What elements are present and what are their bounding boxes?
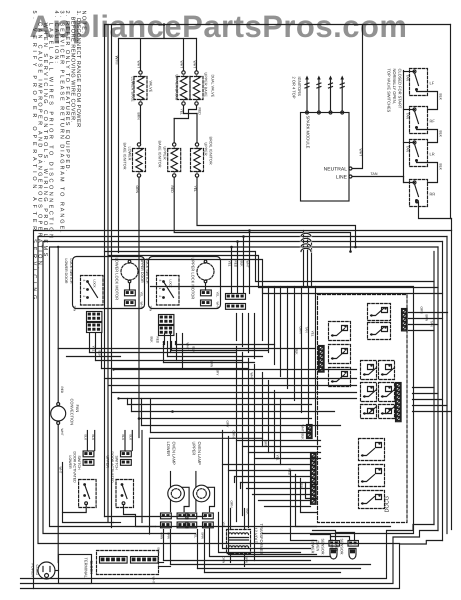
svg-text:YEL: YEL [311,331,315,337]
svg-text:DOOR ACTIVATED: DOOR ACTIVATED [110,452,114,484]
wires: mid connector drops [228,231,250,294]
wire: fan feed [57,246,59,563]
relay: board relay K9 [359,439,385,461]
wire: bus line 7 [112,260,443,294]
svg-text:LOCK SWITCH: LOCK SWITCH [69,259,73,284]
wires: lamp leads down [160,530,205,573]
svg-text:TOP VALVE SWITCHES: TOP VALVE SWITCHES [387,69,392,113]
wire: vertical left of lamps [141,431,143,523]
wire: cord to terminal block [55,570,59,572]
sensor: lower oven sensor [311,539,340,560]
svg-text:OVEN LAMP: OVEN LAMP [172,442,177,466]
svg-text:OVEN: OVEN [316,541,320,552]
svg-text:2 OR 4 TOP: 2 OR 4 TOP [292,77,297,99]
wire: lower bake ignitor down ORN [135,177,139,437]
wire: upper broil ignitor top [196,114,198,143]
svg-text:WHT: WHT [140,302,144,309]
svg-text:TAN: TAN [406,75,410,82]
svg-text:BLK: BLK [240,261,244,268]
wires: mid-right vertical bundle [223,347,317,561]
connector: board right strip 1 [402,309,408,331]
wire: right vertical from top rail [451,25,452,231]
svg-text:RED: RED [170,186,174,194]
wire: border staircase line 2 [21,531,439,584]
svg-text:TAN: TAN [406,113,410,120]
svg-text:SENSOR: SENSOR [321,539,325,555]
svg-text:3: 3 [82,280,86,282]
svg-text:ORN: ORN [135,186,139,194]
terminal: spark module LINE [336,175,352,181]
wires: jogs [235,477,241,489]
wire: dual valve drop [196,39,198,71]
svg-text:BRN: BRN [167,533,171,539]
svg-text:LOWER: LOWER [166,442,171,457]
wire: lower bake valve to ignitor BRN [137,105,141,143]
svg-text:LOWER: LOWER [311,540,315,554]
labels: wire colors middle [92,337,304,516]
wire: dual valve to ignitor RED [174,105,201,118]
wire: outer frame left line 4 [50,247,439,527]
svg-text:ORN: ORN [230,501,234,509]
svg-text:BLK: BLK [129,435,133,441]
svg-text:SENSOR: SENSOR [340,539,344,555]
svg-text:2: 2 [82,296,86,298]
svg-text:BLK: BLK [439,131,443,138]
relay: board relay K1 [368,304,391,321]
junctions: bus taps [230,229,357,253]
wires: connector drops right [237,314,255,359]
valve: upper broil valve [175,71,191,105]
svg-text:SPARK MODULE: SPARK MODULE [306,116,311,149]
wire: upper bake ignitor down RED [170,177,350,251]
svg-text:TAN: TAN [149,306,153,312]
svg-text:YEL: YEL [276,455,280,461]
svg-text:IGNITORS: IGNITORS [297,77,302,97]
connector: below upper lock switch [159,315,174,336]
svg-text:LOCK: LOCK [93,280,97,288]
svg-text:GRY: GRY [226,421,230,429]
connector: small board connector WHT/BLK [301,425,313,441]
svg-text:ORN: ORN [299,327,303,335]
svg-text:TAN: TAN [371,172,378,176]
svg-text:UPPER: UPPER [192,442,197,456]
svg-text:1: 1 [82,288,86,290]
svg-text:VALVE: VALVE [149,81,153,93]
wires: door switch outputs [63,505,156,527]
svg-text:BRN: BRN [425,315,429,322]
svg-text:BLK: BLK [98,351,102,358]
label: top valve switches note [387,69,403,113]
svg-text:WHT: WHT [250,373,254,380]
svg-text:LOWER LOCK MOTOR: LOWER LOCK MOTOR [115,258,120,301]
wire: upper broil ignitor down YEL [193,177,356,247]
svg-text:WHT: WHT [301,425,305,432]
connector: board bottom strip [396,383,402,422]
wires: bottom feeds [114,523,164,527]
svg-text:POWER: POWER [31,564,35,578]
svg-text:UPPER LOCK MOTOR: UPPER LOCK MOTOR [191,258,196,300]
watermark AppliancePartsPros.com [30,9,408,44]
svg-text:BLK: BLK [84,435,88,441]
connector: mid right pair [226,294,246,310]
svg-text:YEL: YEL [92,346,96,352]
svg-text:BLK: BLK [91,435,95,441]
switch: top valve switch RF [410,107,436,134]
svg-text:YEL: YEL [140,292,144,298]
label WHT [180,61,197,69]
wire: TAN bus to switches [404,71,415,183]
wire: border staircase line 3 [21,541,443,589]
ignitor: upper bake ignitor [158,141,181,178]
wire: valve feed rail [119,25,197,39]
relay: board relay K8 [361,405,395,419]
svg-text:1: 1 [158,288,162,290]
label WHT [137,61,141,69]
svg-text:UPPER: UPPER [330,540,334,553]
wires: relay outputs right [409,307,448,331]
switch: upper door activated switch [106,451,134,508]
wires: board feed verticals [263,231,316,437]
board: outer solid box [151,287,414,534]
svg-text:RED: RED [156,337,160,344]
terminal block: dashed pins [97,551,159,575]
svg-text:DUAL VALVE: DUAL VALVE [211,75,215,98]
svg-text:TAN: TAN [162,341,166,348]
wires: sensor leads [311,531,355,541]
svg-text:YEL: YEL [222,522,226,528]
wire: upper broil valve to ignitor YEL [180,105,198,115]
label TAN taps [406,75,410,153]
svg-text:BRN: BRN [210,361,214,368]
svg-text:OVEN LAMP: OVEN LAMP [197,442,202,466]
wire: outer frame left line 3 [43,242,443,534]
svg-text:BLK: BLK [301,434,305,441]
svg-text:ORN: ORN [420,307,424,315]
svg-text:GRY: GRY [216,369,220,377]
svg-text:12 VOLT: 12 VOLT [254,528,259,544]
notes text block (rotated) [31,11,87,309]
svg-text:BLK: BLK [439,94,443,101]
svg-text:UPPER BAKE: UPPER BAKE [204,73,208,98]
svg-text:YEL: YEL [194,533,198,539]
switch: lower door activated switch [68,451,96,508]
switch: top valve switch LR [410,140,435,167]
label 2 OR 4 TOP IGNITORS [292,77,303,99]
svg-text:BLK: BLK [246,509,250,516]
svg-text:BLK: BLK [150,337,154,344]
board: dashed DOCG board [318,295,408,523]
power cord: plug [31,562,56,579]
label WHT left rail [115,56,120,66]
svg-text:BLK: BLK [295,349,299,356]
transformer: 12 volt transformer [222,522,265,564]
terminal block: box [59,555,95,584]
module: spark module box [301,113,350,202]
svg-text:WHT: WHT [137,61,141,69]
svg-text:BLOCK: BLOCK [89,561,94,575]
relay: board relay K5 [329,368,351,387]
wire: border staircase line 1 [21,525,435,579]
switch: top valve switch LF [410,69,435,96]
svg-text:YEL: YEL [216,292,220,298]
svg-text:WHT: WHT [246,261,250,268]
svg-text:WHT: WHT [60,429,64,436]
svg-text:LR: LR [430,152,435,157]
svg-text:OVEN: OVEN [335,541,339,552]
svg-text:BRN: BRN [137,113,141,121]
svg-text:SWITCH: SWITCH [115,456,119,471]
svg-text:ORN: ORN [160,533,164,540]
svg-text:ORN: ORN [222,557,226,564]
svg-text:RF: RF [430,119,436,124]
svg-text:BAKE IGNITOR: BAKE IGNITOR [123,143,127,170]
wire: lower bake valve drop [140,39,142,71]
wire: upper bake ignitor to ignitor top [173,119,175,143]
svg-text:RED: RED [288,469,292,476]
sensor: upper oven sensor [330,539,359,560]
svg-text:WHT: WHT [193,61,197,69]
relay: board relay K2 [368,323,391,340]
box: oven lamps enclosure [150,438,263,534]
svg-text:RED: RED [60,387,64,394]
switch: top valve switch RR [410,180,436,207]
svg-text:LOWER BAKE: LOWER BAKE [131,77,135,103]
wires: bottom lamp runs right [164,513,371,573]
svg-text:YEL: YEL [228,261,232,267]
wires: bottom long runs [105,516,206,518]
valve: lower bake valve [131,71,153,105]
lamp: upper oven lamp [186,442,215,528]
svg-text:WHT: WHT [152,577,156,584]
electrodes: top ignitor outputs [305,76,344,115]
relay: board relay K3 [329,322,351,341]
wire: switch chain BLK 3 [417,163,443,183]
wire: switch chain BLK 2 [417,130,443,143]
wire: top neutral rail WHT [105,24,451,26]
svg-text:UPPER DOOR: UPPER DOOR [140,259,144,284]
relay: board relay K4 [329,345,351,364]
svg-text:WHT: WHT [180,61,184,69]
svg-text:3: 3 [158,280,162,282]
wire: neutral up WHT [352,25,363,169]
svg-text:BLK: BLK [121,435,125,441]
wires: board connector feed lines [223,441,321,507]
svg-text:NEUTRAL: NEUTRAL [324,167,348,173]
connector: board left strip [319,346,325,373]
relay: board relay K10 [359,465,385,509]
svg-text:RR: RR [430,192,436,197]
svg-text:ORN: ORN [232,431,236,439]
svg-text:UPPER BROIL: UPPER BROIL [175,75,179,101]
wire: upper broil valve drop [183,39,185,71]
svg-text:RED: RED [198,108,202,116]
svg-text:WHT: WHT [359,149,363,157]
relay: board relay K7 [361,383,395,402]
svg-text:YEL: YEL [180,109,184,116]
wire: left border verticals top section [105,25,112,528]
svg-text:CONVECTION: CONVECTION [70,399,75,426]
svg-text:BAKE IGNITOR: BAKE IGNITOR [158,141,162,168]
svg-text:CLOSED FOR START: CLOSED FOR START [398,69,403,109]
wires: drops from lock connectors [90,334,183,369]
wire: line to switches TAN [352,172,404,177]
svg-text:TAN: TAN [73,306,77,312]
motor: upper lock motor assembly [140,257,221,312]
svg-text:LOCK SWITCH: LOCK SWITCH [145,259,149,284]
svg-text:BLK: BLK [157,548,161,554]
svg-text:LOWER: LOWER [128,147,132,161]
svg-text:CORD: CORD [35,565,39,576]
connector: board tall left strip [311,453,317,505]
wire: bus line 5 [105,252,435,282]
motor: convection fan [51,387,80,436]
svg-text:YEL: YEL [193,186,197,193]
connector: below lower lock switch [87,312,102,333]
svg-text:LOWER: LOWER [68,456,72,470]
labels: board input wires [295,327,315,356]
terminal: spark module NEUTRAL [324,167,352,173]
wires: middle routing horizontals [58,342,356,433]
wires: cascade placeholder [0,0,2,2]
svg-text:WHT: WHT [216,302,220,309]
svg-text:DOCG: DOCG [385,496,391,513]
motor: lower lock motor assembly [64,257,145,312]
svg-text:TRANSFORMER: TRANSFORMER [259,524,264,555]
svg-text:RED: RED [234,261,238,268]
wire: outer frame left line 1 [34,231,452,589]
svg-text:BRN: BRN [245,557,249,563]
wire: last switch to bus [416,200,452,218]
wires: board right side bus [413,388,452,412]
ignitor: lower bake ignitor [123,143,146,178]
svg-text:LF: LF [430,81,435,86]
valve: dual valve upper bake [190,71,215,105]
wire: switch chain BLK 1 [417,92,443,110]
wires: terminal block outputs [152,548,171,584]
svg-text:TAN: TAN [305,327,309,334]
svg-text:BRN: BRN [264,441,268,448]
svg-text:SWITCH: SWITCH [77,456,81,471]
wire: outer frame left line 2 [38,237,447,544]
junction: feed tap [163,23,166,26]
svg-text:TAN: TAN [406,146,410,153]
svg-text:BLK: BLK [439,164,443,171]
svg-text:FAN: FAN [75,405,80,413]
lamp: lower oven lamp [161,442,190,528]
wire: bus line 6 [108,256,438,288]
svg-text:UPPER: UPPER [204,143,208,156]
svg-text:UPPER: UPPER [163,147,167,160]
wires: transformer leads [231,509,245,567]
svg-text:BLK: BLK [192,347,196,354]
svg-text:BROIL IGNITOR: BROIL IGNITOR [209,137,213,165]
svg-text:WHT: WHT [186,343,190,350]
wire: right frame verticals [434,231,452,541]
wires: door switch leads [84,431,133,451]
relay: board relay K6 [361,361,395,380]
svg-text:WHT: WHT [59,467,63,474]
svg-text:TERMINAL: TERMINAL [84,558,89,579]
svg-text:BLK: BLK [300,483,304,490]
svg-text:TAN: TAN [430,321,434,328]
wire: WHT drop left [59,463,63,513]
svg-text:LOWER DOOR: LOWER DOOR [64,259,68,284]
svg-text:UPPER: UPPER [106,456,110,469]
wire: feed drop x118 [118,39,120,253]
svg-text:BRN: BRN [201,533,205,539]
ignitor: upper broil ignitor [191,137,213,178]
svg-text:DOOR ACTIVATED: DOOR ACTIVATED [73,452,77,484]
svg-text:LINE: LINE [336,175,348,181]
svg-text:NORMALLY OPEN,: NORMALLY OPEN, [392,69,397,104]
svg-text:2: 2 [158,296,162,298]
wires: nested corner bundle to board [291,471,317,541]
